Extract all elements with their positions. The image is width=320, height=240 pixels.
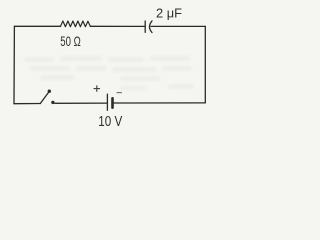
background paper bbox=[0, 0, 210, 134]
resistor 50 ohm bbox=[61, 21, 91, 27]
wire top-left segment bbox=[14, 25, 60, 27]
switch S blade tip dot bbox=[48, 90, 51, 93]
switch S contact dot bbox=[51, 101, 54, 104]
wire battery to switch bbox=[55, 102, 108, 104]
capacitor C (2 uF) left plate bbox=[144, 21, 146, 32]
switch S blade (open) bbox=[40, 92, 49, 104]
svg-text:50 Ω: 50 Ω bbox=[60, 33, 81, 49]
battery plus sign bbox=[94, 88, 101, 90]
faint print bleed-through band bbox=[24, 56, 194, 90]
battery B (10 V) positive long plate bbox=[106, 94, 108, 110]
wire top-middle segment bbox=[90, 25, 145, 27]
svg-text:2 μF: 2 μF bbox=[156, 7, 182, 21]
wire right edge bbox=[204, 26, 206, 103]
wire top-right segment bbox=[151, 25, 205, 27]
battery minus sign bbox=[117, 92, 122, 94]
svg-text:10 V: 10 V bbox=[98, 114, 122, 130]
wire bottom-left segment bbox=[14, 103, 40, 105]
wire left edge bbox=[13, 26, 15, 103]
capacitor C (2 uF) curved plate bbox=[150, 21, 153, 33]
battery B (10 V) negative short plate bbox=[111, 98, 114, 107]
wire bottom-right segment bbox=[113, 102, 206, 104]
